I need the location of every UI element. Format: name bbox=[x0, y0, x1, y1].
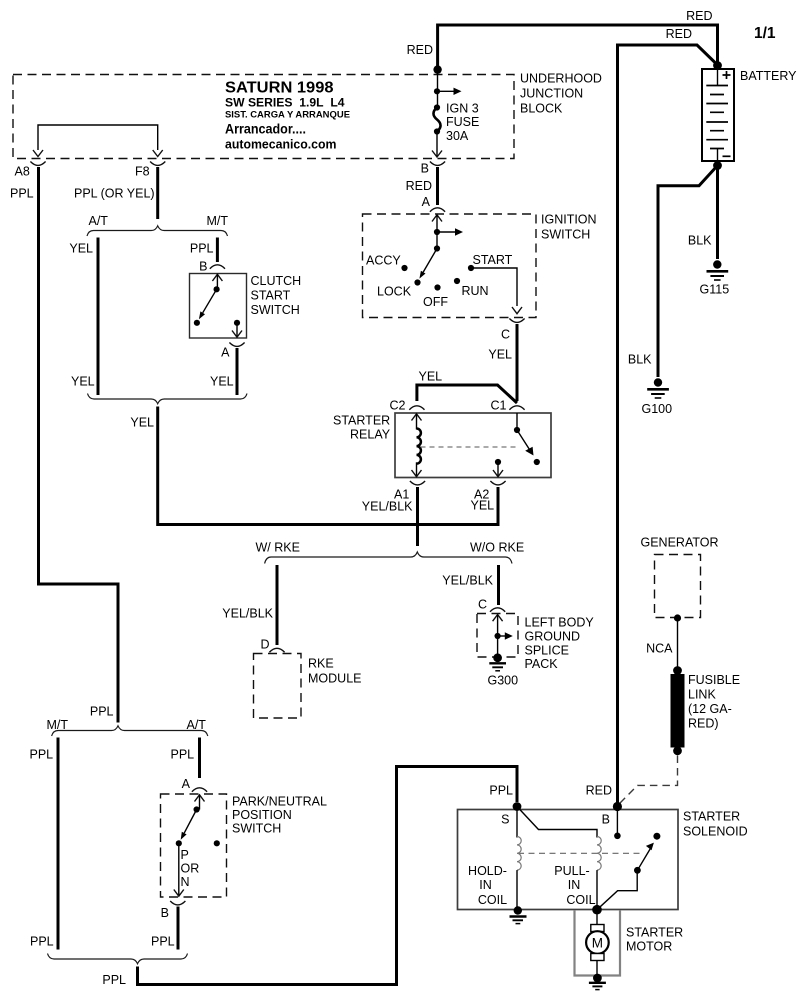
svg-text:MODULE: MODULE bbox=[308, 672, 361, 686]
svg-text:LEFT BODY: LEFT BODY bbox=[525, 616, 595, 630]
svg-text:B: B bbox=[421, 162, 429, 176]
svg-text:PPL: PPL bbox=[30, 748, 54, 762]
svg-text:MOTOR: MOTOR bbox=[626, 940, 672, 954]
wire START to C terminal bbox=[471, 268, 517, 306]
svg-text:IGNITION: IGNITION bbox=[541, 213, 597, 227]
arrow down at F8 bbox=[153, 150, 163, 157]
svg-text:B: B bbox=[602, 813, 610, 827]
svg-text:PARK/NEUTRAL: PARK/NEUTRAL bbox=[232, 795, 327, 809]
battery bbox=[702, 69, 734, 161]
generator dashed box bbox=[655, 555, 701, 618]
solenoid upper right contact bbox=[653, 833, 660, 840]
wire RED long vertical from battery diagonal down right side bbox=[618, 45, 717, 804]
svg-text:YEL/BLK: YEL/BLK bbox=[222, 607, 273, 621]
connector C bbox=[509, 319, 524, 323]
svg-text:F8: F8 bbox=[135, 165, 150, 179]
svg-text:YEL: YEL bbox=[419, 370, 443, 384]
svg-text:NCA: NCA bbox=[646, 642, 673, 656]
svg-text:W/O RKE: W/O RKE bbox=[470, 541, 524, 555]
svg-text:BLOCK: BLOCK bbox=[520, 102, 563, 116]
wire PPL merged to starter solenoid S bbox=[138, 767, 518, 985]
svg-text:PPL: PPL bbox=[102, 973, 126, 987]
svg-text:A/T: A/T bbox=[89, 214, 109, 228]
svg-text:GENERATOR: GENERATOR bbox=[641, 536, 719, 550]
relay coil C2 to A1 bbox=[412, 414, 422, 477]
svg-text:1/1: 1/1 bbox=[754, 25, 776, 42]
connector A pns bbox=[192, 788, 207, 792]
svg-text:BLK: BLK bbox=[688, 234, 712, 248]
ignition feed arrow and nodes bbox=[432, 215, 463, 249]
node pns unused contact bbox=[214, 840, 220, 846]
svg-text:PULL-: PULL- bbox=[554, 864, 589, 878]
wire YEL A/T branch bbox=[97, 238, 100, 396]
svg-text:IN: IN bbox=[479, 878, 492, 892]
svg-text:LINK: LINK bbox=[688, 688, 716, 702]
clutch start switch box bbox=[190, 274, 247, 339]
brace W/RKE W/O RKE bbox=[265, 552, 512, 564]
svg-text:M: M bbox=[592, 936, 603, 951]
brace A/T M/T split bbox=[87, 226, 228, 236]
connector F8 bbox=[150, 162, 165, 166]
svg-text:COIL: COIL bbox=[566, 893, 595, 907]
wire BLK battery negative to G100 bbox=[658, 166, 718, 378]
svg-text:RED: RED bbox=[407, 43, 433, 57]
ground starter motor bbox=[589, 974, 606, 990]
ground G300 bbox=[489, 653, 506, 670]
node generator output bbox=[674, 614, 681, 621]
connector A2 bbox=[490, 481, 505, 485]
connector A1 bbox=[410, 481, 425, 485]
connector D rke bbox=[269, 648, 284, 652]
relay switch C1 to A2 bbox=[493, 413, 540, 477]
svg-text:IGN 3: IGN 3 bbox=[446, 102, 479, 116]
svg-text:G115: G115 bbox=[700, 283, 730, 297]
svg-text:PPL: PPL bbox=[489, 784, 513, 798]
connector B clutch bbox=[210, 265, 225, 269]
svg-text:PPL: PPL bbox=[90, 705, 114, 719]
svg-text:CLUTCH: CLUTCH bbox=[251, 274, 302, 288]
arrow down at C inside box bbox=[512, 307, 522, 314]
svg-text:W/ RKE: W/ RKE bbox=[256, 541, 300, 555]
relay actuation dashed line bbox=[421, 446, 520, 448]
ground hold-in coil bbox=[510, 906, 527, 923]
starter motor bbox=[586, 910, 609, 976]
brace YEL merge bbox=[88, 394, 248, 404]
svg-text:RED: RED bbox=[686, 9, 712, 23]
wire RED from fuse junction up and across to battery bbox=[438, 25, 718, 70]
connector A8 bbox=[30, 162, 45, 166]
svg-text:COIL: COIL bbox=[478, 893, 507, 907]
svg-text:RED: RED bbox=[666, 27, 692, 41]
svg-text:START: START bbox=[473, 253, 513, 267]
svg-text:YEL: YEL bbox=[471, 499, 495, 513]
node solenoid motor junction bbox=[592, 905, 602, 915]
svg-text:YEL/BLK: YEL/BLK bbox=[442, 574, 493, 588]
svg-text:STARTER: STARTER bbox=[683, 810, 740, 824]
connector C1 bbox=[509, 406, 524, 410]
node START contact bbox=[468, 265, 474, 271]
starter motor housing bbox=[575, 910, 621, 976]
svg-text:ACCY: ACCY bbox=[366, 254, 401, 268]
starter relay box bbox=[395, 413, 551, 478]
node clutch LOCK contact bbox=[194, 320, 200, 326]
wire YEL/BLK to splice pack bbox=[497, 565, 500, 605]
RKE module dashed box bbox=[254, 654, 302, 719]
svg-text:BLK: BLK bbox=[628, 353, 652, 367]
svg-text:YEL: YEL bbox=[488, 348, 512, 362]
svg-text:SW SERIES 1.9L L4: SW SERIES 1.9L L4 bbox=[225, 96, 345, 110]
wire PPL pns B down bbox=[177, 907, 180, 950]
node pns P contact bbox=[176, 840, 182, 846]
svg-text:HOLD-: HOLD- bbox=[468, 864, 507, 878]
node RUN contact bbox=[454, 278, 460, 284]
pns wiper bbox=[181, 795, 205, 840]
svg-text:RED): RED) bbox=[688, 717, 719, 731]
underhood junction block dashed box with SATURN title bbox=[13, 75, 514, 159]
svg-text:PACK: PACK bbox=[525, 657, 559, 671]
wire YEL/BLK to RKE module bbox=[276, 565, 279, 645]
svg-text:YEL: YEL bbox=[71, 375, 95, 389]
svg-text:BATTERY: BATTERY bbox=[740, 69, 797, 83]
node battery negative junction bbox=[713, 161, 722, 170]
fusible link bbox=[671, 666, 685, 755]
svg-text:SPLICE: SPLICE bbox=[525, 644, 569, 658]
svg-text:YEL: YEL bbox=[69, 242, 93, 256]
svg-text:B: B bbox=[199, 260, 207, 274]
node B terminal bbox=[613, 802, 622, 811]
svg-text:C1: C1 bbox=[491, 399, 507, 413]
svg-text:C: C bbox=[501, 328, 510, 342]
starter solenoid box bbox=[458, 810, 679, 910]
svg-text:SATURN 1998: SATURN 1998 bbox=[225, 80, 334, 97]
fuse IGN 3 30A bbox=[432, 70, 462, 157]
node junction RED at fuse top bbox=[433, 65, 441, 73]
svg-text:A: A bbox=[182, 777, 191, 791]
svg-text:M/T: M/T bbox=[207, 214, 229, 228]
arrow clutch output down bbox=[236, 323, 238, 337]
ground G115 bbox=[707, 260, 729, 280]
svg-text:RKE: RKE bbox=[308, 657, 334, 671]
wire PPL M/T branch long bbox=[57, 738, 60, 950]
solenoid actuation dashed line bbox=[518, 852, 642, 854]
svg-text:STARTER: STARTER bbox=[333, 414, 390, 428]
svg-text:FUSIBLE: FUSIBLE bbox=[688, 673, 740, 687]
svg-text:P: P bbox=[181, 848, 189, 862]
connector A ignition bbox=[430, 208, 445, 212]
svg-text:G300: G300 bbox=[488, 674, 519, 688]
svg-text:YEL: YEL bbox=[130, 416, 154, 430]
svg-text:RELAY: RELAY bbox=[350, 428, 391, 442]
wire YEL/BLK A1 down to RKE brace bbox=[416, 487, 419, 546]
svg-text:B: B bbox=[161, 906, 169, 920]
node S terminal bbox=[513, 802, 522, 811]
wire PPL A/T branch to PNS bbox=[198, 738, 201, 779]
wire inside junction block to A8 F8 bbox=[38, 125, 158, 150]
svg-text:M/T: M/T bbox=[47, 718, 69, 732]
svg-text:D: D bbox=[260, 638, 269, 652]
node ACCY contact bbox=[401, 265, 407, 271]
svg-text:A: A bbox=[422, 195, 431, 209]
ground G100 bbox=[647, 378, 669, 398]
svg-text:YEL/BLK: YEL/BLK bbox=[362, 500, 413, 514]
svg-text:SWITCH: SWITCH bbox=[541, 228, 590, 242]
wire YEL clutch output down bbox=[236, 348, 239, 395]
svg-text:OR: OR bbox=[181, 862, 200, 876]
solenoid B contact bbox=[616, 807, 618, 836]
wire NCA generator to fusible link bbox=[677, 618, 679, 670]
svg-text:C: C bbox=[478, 598, 487, 612]
wire BLK battery negative to G115 bbox=[716, 166, 719, 260]
svg-text:IN: IN bbox=[568, 878, 581, 892]
svg-text:START: START bbox=[251, 289, 291, 303]
svg-text:JUNCTION: JUNCTION bbox=[520, 87, 583, 101]
node LOCK contact bbox=[414, 279, 420, 285]
svg-text:A8: A8 bbox=[15, 165, 30, 179]
svg-text:SWITCH: SWITCH bbox=[232, 822, 281, 836]
svg-text:STARTER: STARTER bbox=[626, 926, 683, 940]
node battery positive junction bbox=[713, 61, 722, 70]
ignition switch wiper from A bbox=[419, 245, 440, 278]
svg-text:RED: RED bbox=[586, 784, 612, 798]
connector A clutch bbox=[229, 343, 244, 347]
svg-text:A: A bbox=[221, 346, 230, 360]
svg-text:SWITCH: SWITCH bbox=[251, 303, 300, 317]
park neutral position switch dashed box bbox=[161, 794, 227, 897]
svg-text:S: S bbox=[501, 813, 509, 827]
pull-in coil fed from S bbox=[517, 807, 601, 910]
svg-text:A/T: A/T bbox=[187, 718, 207, 732]
svg-text:(12 GA-: (12 GA- bbox=[688, 702, 732, 716]
svg-text:SOLENOID: SOLENOID bbox=[683, 825, 748, 839]
svg-text:N: N bbox=[181, 875, 190, 889]
wire PPL A8 long down and right bbox=[39, 167, 119, 723]
svg-text:PPL: PPL bbox=[151, 935, 175, 949]
svg-text:PPL: PPL bbox=[171, 748, 195, 762]
dashed wire fusible link to B junction bbox=[619, 756, 678, 805]
ignition switch dashed box bbox=[363, 214, 537, 318]
svg-text:30A: 30A bbox=[446, 129, 469, 143]
svg-text:PPL: PPL bbox=[190, 242, 214, 256]
brace M/T A/T split lower bbox=[52, 726, 208, 736]
connector C2 bbox=[409, 406, 424, 410]
svg-text:OFF: OFF bbox=[423, 295, 448, 309]
arrow down at A8 bbox=[33, 150, 43, 157]
clutch switch wiper bbox=[199, 274, 223, 319]
svg-text:PPL (OR YEL): PPL (OR YEL) bbox=[74, 187, 155, 201]
svg-text:LOCK: LOCK bbox=[377, 285, 412, 299]
svg-text:Arrancador....: Arrancador.... bbox=[225, 121, 306, 136]
svg-text:YEL: YEL bbox=[210, 375, 234, 389]
svg-text:automecanico.com: automecanico.com bbox=[225, 136, 337, 151]
svg-text:RUN: RUN bbox=[462, 284, 489, 298]
svg-text:PPL: PPL bbox=[30, 935, 54, 949]
arrow pns output down bbox=[178, 843, 180, 895]
solenoid switch wiper bbox=[597, 843, 654, 910]
hold-in coil bbox=[517, 807, 521, 910]
svg-text:G100: G100 bbox=[642, 402, 673, 416]
wire YEL branch to C2 bbox=[417, 385, 517, 403]
connector C splice bbox=[490, 608, 505, 612]
svg-text:RED: RED bbox=[406, 179, 432, 193]
svg-text:GROUND: GROUND bbox=[525, 630, 581, 644]
svg-text:C2: C2 bbox=[390, 399, 406, 413]
connector B below junction block bbox=[430, 162, 445, 166]
svg-text:FUSE: FUSE bbox=[446, 115, 479, 129]
wire PPL(OR YEL) F8 down bbox=[156, 167, 159, 219]
connector B pns bbox=[170, 901, 185, 905]
svg-text:UNDERHOOD: UNDERHOOD bbox=[520, 72, 602, 86]
wire YEL merged down and across to A2 bbox=[158, 407, 498, 525]
splice pack dashed box bbox=[477, 614, 518, 658]
brace PPL merge bottom bbox=[48, 954, 188, 964]
node clutch output contact bbox=[234, 320, 240, 326]
node OFF contact bbox=[434, 284, 440, 290]
splice pack internals bbox=[493, 615, 513, 658]
svg-text:POSITION: POSITION bbox=[232, 808, 292, 822]
wire PPL M/T branch to clutch switch bbox=[216, 238, 219, 263]
wire RED B to A into ignition switch bbox=[436, 167, 439, 205]
svg-text:PPL: PPL bbox=[10, 187, 34, 201]
svg-text:SIST. CARGA Y ARRANQUE: SIST. CARGA Y ARRANQUE bbox=[225, 109, 351, 120]
wire YEL C to C1 bbox=[516, 324, 519, 401]
